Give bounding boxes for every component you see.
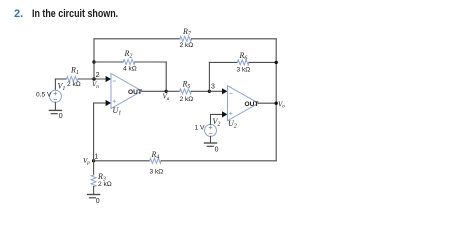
junction dot R2/R7 branch	[92, 60, 95, 63]
node 1 junction dot	[92, 159, 95, 162]
svg-text:2: 2	[96, 72, 100, 79]
svg-text:0: 0	[96, 198, 100, 205]
U2 plus sign	[230, 112, 233, 115]
node Vo junction dot	[275, 102, 278, 105]
title	[14, 8, 23, 20]
wire R6 left run	[209, 61, 237, 63]
svg-text:R2: R2	[124, 49, 133, 60]
svg-text:Vo: Vo	[278, 100, 285, 109]
resistor R5	[180, 89, 192, 94]
wire V1 to R1	[55, 78, 66, 80]
wire R4 to rail	[161, 160, 276, 162]
resistor R7	[180, 36, 192, 41]
svg-text:1: 1	[94, 154, 98, 161]
svg-text:OUT: OUT	[128, 89, 142, 96]
svg-text:U2: U2	[228, 119, 237, 130]
node 2 junction dot	[92, 77, 95, 80]
wire V2 top riser	[211, 114, 223, 124]
svg-text:Va: Va	[163, 93, 170, 102]
svg-text:R1: R1	[70, 66, 79, 77]
wire V1 top riser	[54, 79, 56, 90]
svg-text:1 V: 1 V	[195, 124, 205, 131]
svg-text:U1: U1	[113, 106, 122, 117]
svg-text:V2: V2	[213, 117, 221, 128]
wire V2 to ground	[210, 136, 212, 142]
wire node3 to U2 minus	[209, 90, 223, 92]
op-amp U2	[228, 86, 259, 121]
pin arrow U1 minus	[106, 76, 111, 82]
pin arrow U2 minus	[222, 88, 227, 94]
svg-text:3: 3	[211, 83, 215, 90]
ground 0 below V1	[49, 109, 61, 111]
U1 plus sign	[113, 100, 116, 103]
pin arrow U1 plus	[106, 100, 111, 106]
wire R2 right run	[135, 61, 166, 63]
svg-text:R4: R4	[151, 150, 160, 161]
svg-text:4 kΩ: 4 kΩ	[123, 66, 137, 73]
wire node2 up to top	[93, 39, 95, 79]
ground 0 below V2	[205, 142, 217, 144]
svg-text:Vp: Vp	[83, 157, 90, 166]
wire U1 out to Va	[142, 90, 166, 92]
svg-text:R5: R5	[182, 79, 191, 90]
wire node1 to R4	[94, 160, 150, 162]
op-amp U1	[111, 74, 142, 109]
voltage source V2	[205, 124, 217, 136]
svg-text:Vn: Vn	[92, 81, 99, 90]
svg-text:2 kΩ: 2 kΩ	[180, 96, 194, 103]
resistor R2	[123, 60, 135, 65]
pin arrow U2 plus	[222, 111, 227, 117]
wire R5 to node3	[191, 90, 209, 92]
resistor R1	[67, 77, 79, 82]
wire top run right of R7	[192, 38, 277, 40]
svg-text:R6: R6	[239, 51, 248, 62]
svg-text:0.5 V: 0.5 V	[36, 91, 52, 98]
wire to U1 plus	[94, 102, 107, 104]
U1 minus sign	[113, 80, 116, 82]
svg-text:R7: R7	[182, 27, 192, 38]
svg-text:0: 0	[59, 113, 63, 120]
wire node1 up	[93, 103, 95, 161]
svg-text:3 kΩ: 3 kΩ	[237, 66, 251, 73]
svg-text:0: 0	[215, 146, 219, 153]
wire R2 down to Va	[165, 62, 167, 91]
voltage source V1	[49, 90, 61, 102]
svg-text:2 kΩ: 2 kΩ	[180, 42, 194, 49]
resistor R4	[150, 158, 162, 163]
wire R1 to U1 minus	[78, 78, 106, 80]
U2 minus sign	[230, 92, 233, 94]
svg-text:3 kΩ: 3 kΩ	[150, 168, 164, 175]
svg-text:V1: V1	[58, 82, 66, 93]
wire R2 left run	[94, 61, 123, 63]
node 3 junction dot	[208, 90, 211, 93]
svg-text:OUT: OUT	[245, 101, 259, 108]
resistor R6	[237, 60, 249, 65]
wire U2 out to Vo	[259, 102, 277, 104]
ground 0 below R3	[88, 194, 100, 196]
wire right rail	[275, 39, 277, 161]
wire node3 up to R6	[208, 62, 210, 91]
resistor R3	[91, 175, 96, 187]
wire V1 to ground	[54, 102, 56, 110]
junction dot R6/rail	[275, 61, 278, 64]
svg-text:2 kΩ: 2 kΩ	[98, 181, 112, 188]
wire node1 down to R3	[93, 161, 95, 175]
wire R3 to ground	[93, 187, 95, 195]
node Va junction dot	[165, 90, 168, 93]
wire R6 right run	[249, 61, 276, 63]
wire top run left of R7	[94, 38, 180, 40]
svg-text:2 kΩ: 2 kΩ	[67, 81, 81, 88]
wire Va to R5	[166, 90, 180, 92]
